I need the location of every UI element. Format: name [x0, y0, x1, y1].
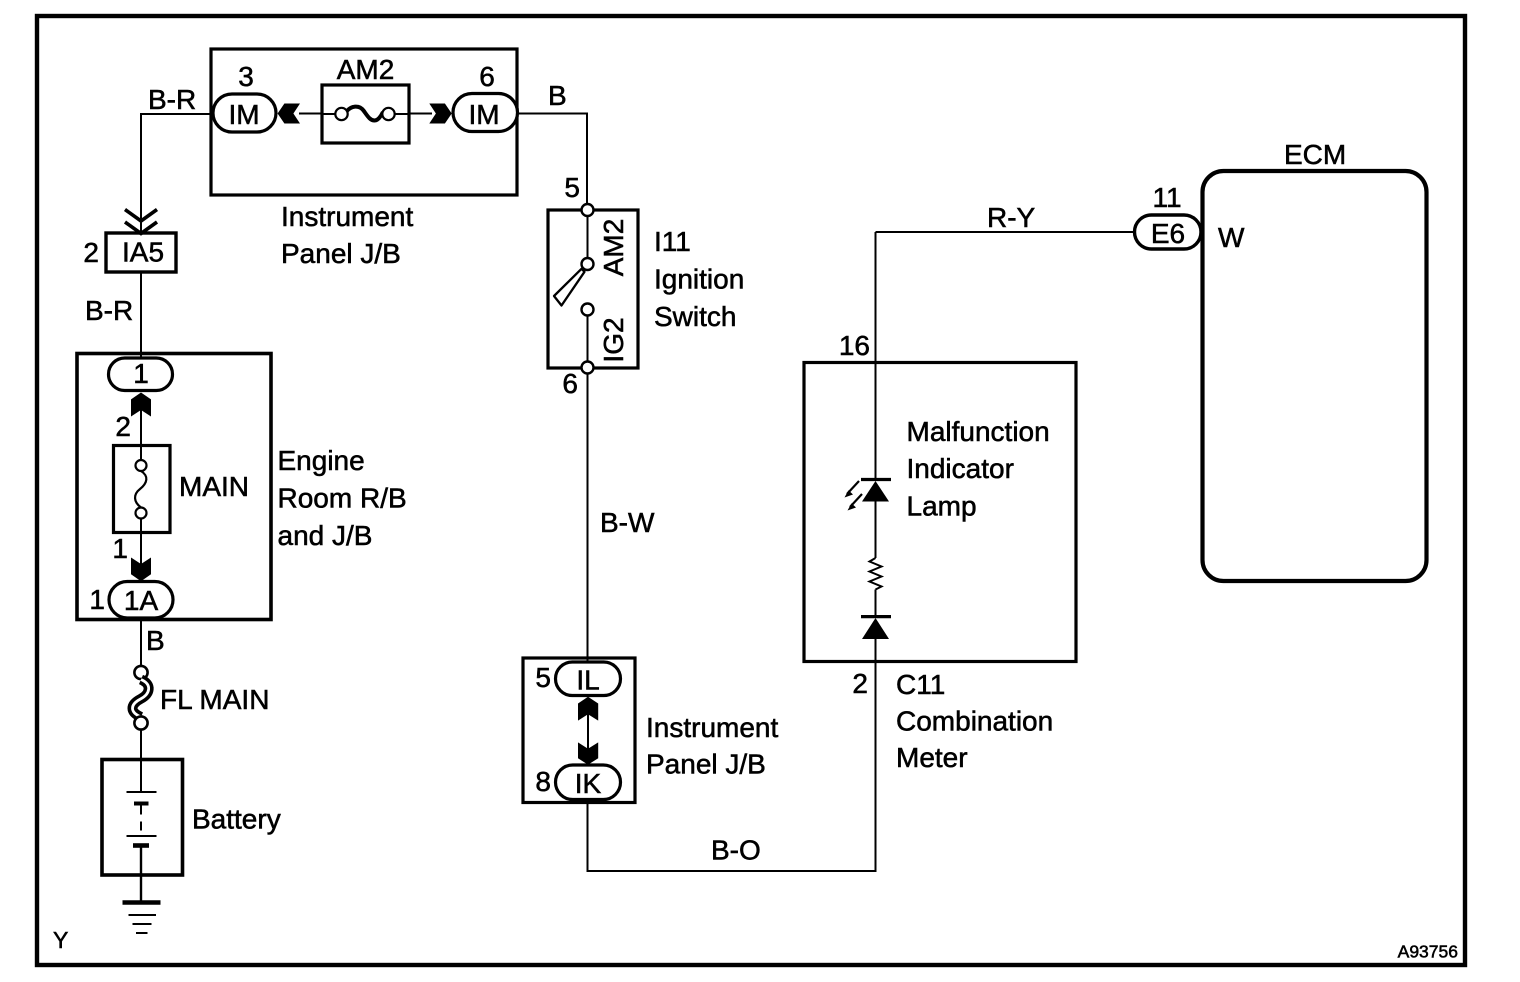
svg-text:Room R/B: Room R/B	[278, 483, 407, 514]
resistor	[870, 558, 882, 590]
wire B-O	[588, 662, 876, 871]
arrow up (J/B internal)	[578, 697, 598, 721]
connector IM pin3	[213, 94, 276, 132]
wire inside switch lower	[587, 316, 589, 363]
wire B-R horizontal	[141, 113, 214, 115]
switch lever	[554, 269, 585, 306]
arrow into IM pin6	[429, 104, 451, 124]
wire to battery	[140, 730, 142, 763]
wire arrow to fuse box	[299, 113, 322, 115]
svg-text:E6: E6	[1151, 218, 1185, 249]
wire R-Y horizontal	[876, 231, 1136, 233]
svg-text:Instrument: Instrument	[646, 712, 778, 743]
svg-text:IK: IK	[575, 768, 602, 799]
svg-text:3: 3	[238, 61, 254, 92]
svg-text:Lamp: Lamp	[907, 491, 977, 522]
svg-text:5: 5	[564, 172, 580, 203]
svg-text:and J/B: and J/B	[278, 520, 373, 551]
arrow down to 1A	[131, 558, 151, 582]
LED triangle	[862, 481, 889, 502]
arrow into IM pin3	[278, 104, 300, 124]
svg-text:ECM: ECM	[1284, 139, 1346, 170]
connector IK pin8	[556, 765, 621, 800]
svg-text:A93756: A93756	[1398, 942, 1458, 962]
wire arrow to MAIN fuse	[140, 407, 142, 446]
fuse MAIN symbol	[140, 446, 142, 461]
wire LED to resistor	[875, 501, 877, 558]
wire B-R vertical	[140, 113, 142, 233]
wire between arrows	[587, 712, 589, 750]
connector IL pin5	[556, 662, 621, 696]
svg-text:Panel J/B: Panel J/B	[281, 238, 401, 269]
svg-text:Y: Y	[53, 927, 68, 953]
svg-text:B-W: B-W	[600, 507, 655, 538]
box Instrument Panel J/B (lower)	[523, 658, 635, 803]
svg-text:2: 2	[115, 411, 131, 442]
svg-text:1: 1	[89, 584, 105, 615]
battery internals	[140, 760, 142, 792]
svg-text:16: 16	[839, 330, 870, 361]
battery plate short 2	[133, 843, 149, 848]
battery dashed link	[140, 806, 142, 833]
svg-text:B: B	[548, 80, 567, 111]
svg-text:6: 6	[479, 61, 495, 92]
svg-text:1: 1	[133, 358, 149, 389]
wire MAIN fuse to arrow	[140, 533, 142, 571]
terminal circle top of FL MAIN	[134, 666, 147, 679]
connector IA5	[106, 233, 176, 272]
LED cathode bar	[861, 478, 891, 481]
svg-text:1A: 1A	[124, 585, 159, 616]
pin 5 terminal circle	[582, 204, 594, 216]
fusible link FL MAIN	[133, 680, 149, 718]
wire resistor to diode	[875, 590, 877, 618]
svg-text:Panel J/B: Panel J/B	[646, 749, 766, 780]
battery plate long 1	[127, 791, 157, 793]
svg-text:Malfunction: Malfunction	[907, 416, 1050, 447]
svg-text:Instrument: Instrument	[281, 201, 413, 232]
LED arrow 2	[850, 494, 862, 507]
svg-text:Battery: Battery	[192, 804, 281, 835]
svg-text:I11: I11	[654, 226, 691, 257]
svg-text:B-R: B-R	[148, 84, 196, 115]
connector 1 (engine room)	[109, 358, 173, 391]
svg-text:8: 8	[535, 766, 551, 797]
svg-text:B: B	[146, 625, 165, 656]
connector 1A	[109, 582, 173, 619]
svg-text:W: W	[1218, 222, 1245, 253]
wire B from IM6 to ignition switch	[516, 113, 588, 115]
wire inside switch	[587, 216, 589, 258]
svg-text:IA5: IA5	[122, 237, 164, 268]
svg-text:Engine: Engine	[278, 445, 365, 476]
fuse MAIN box	[114, 446, 171, 533]
chevron arrows above IA5	[125, 210, 157, 222]
svg-text:IM: IM	[228, 99, 259, 130]
svg-text:2: 2	[83, 237, 99, 268]
svg-text:2: 2	[852, 668, 868, 699]
wire B-W	[587, 374, 589, 664]
fuse AM2 box	[322, 85, 409, 143]
svg-text:Combination: Combination	[896, 706, 1053, 737]
pin 6 terminal circle	[582, 362, 594, 374]
arrow up to connector 1	[131, 393, 151, 417]
battery wire to ground	[140, 846, 142, 903]
diode bar	[861, 615, 891, 618]
wire B (battery feed)	[140, 618, 142, 666]
box ignition switch	[548, 210, 638, 368]
switch contact IG2	[582, 304, 594, 316]
diode triangle	[862, 618, 889, 639]
box combination meter	[804, 363, 1076, 662]
battery plate short 1	[134, 802, 149, 806]
battery plate long 2	[127, 835, 157, 837]
svg-text:6: 6	[562, 368, 578, 399]
svg-text:IL: IL	[576, 665, 599, 696]
svg-text:11: 11	[1152, 182, 1181, 213]
LED arrow 1	[847, 481, 859, 494]
svg-text:Meter: Meter	[896, 742, 968, 773]
svg-text:MAIN: MAIN	[179, 471, 249, 502]
wire R-Y vertical into meter	[875, 232, 877, 480]
svg-text:FL MAIN: FL MAIN	[160, 684, 269, 715]
box engine room R/B	[77, 354, 271, 620]
svg-text:C11: C11	[896, 669, 945, 700]
box Instrument Panel J/B (top)	[211, 49, 517, 195]
battery box	[102, 760, 183, 876]
arrow down (J/B internal)	[578, 742, 598, 764]
switch contact AM2	[582, 258, 594, 270]
svg-text:1: 1	[112, 533, 128, 564]
terminal circle bottom of FL MAIN	[134, 716, 147, 729]
svg-text:Indicator: Indicator	[907, 453, 1014, 484]
ECM box	[1203, 171, 1427, 581]
svg-text:AM2: AM2	[337, 54, 395, 85]
svg-text:IG2: IG2	[598, 317, 629, 362]
wire diode to box bottom	[875, 639, 877, 662]
fuse AM2 symbol	[322, 113, 336, 115]
wire IA5 to engine room box	[140, 272, 142, 358]
svg-text:Switch: Switch	[654, 301, 736, 332]
svg-text:B-O: B-O	[711, 835, 761, 866]
svg-text:IM: IM	[468, 99, 499, 130]
svg-text:AM2: AM2	[598, 219, 629, 277]
svg-text:B-R: B-R	[85, 295, 133, 326]
svg-text:5: 5	[535, 662, 551, 693]
wire fuse to arrow	[409, 113, 432, 115]
connector IM pin6	[453, 94, 518, 132]
ground symbol	[123, 900, 161, 904]
svg-text:Ignition: Ignition	[654, 264, 744, 295]
svg-text:R-Y: R-Y	[987, 202, 1036, 233]
connector E6 pin11	[1135, 215, 1202, 249]
